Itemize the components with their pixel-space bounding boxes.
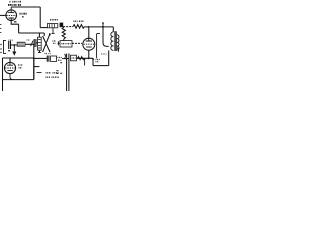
coupling box K1	[60, 41, 72, 47]
drop from rail at x53	[52, 28, 55, 34]
left bus	[2, 58, 4, 91]
capacitor C1	[9, 41, 11, 49]
wire V2 cathode down	[88, 50, 90, 58]
tube V3 cathode	[7, 70, 12, 72]
label above C3	[45, 53, 51, 55]
tube V3 envelope	[4, 62, 15, 73]
label above V1 row2	[8, 4, 21, 6]
node plate V2	[88, 26, 90, 28]
tube V1 plate	[8, 7, 14, 12]
tube V3 grid	[5, 67, 15, 69]
loop right bus bottom	[33, 58, 35, 80]
tube V1 grid	[6, 14, 16, 16]
capacitor C2	[34, 39, 36, 47]
cathode row wire	[34, 57, 47, 59]
OT hook from plate line	[103, 27, 109, 47]
tick mark left of bus	[60, 63, 62, 73]
label mid right	[101, 53, 107, 55]
resistor R3 box on rail	[47, 24, 57, 28]
wire K1 to V2 grid	[72, 42, 82, 44]
node C2 bus	[33, 43, 35, 45]
OT secondary bottom hook	[117, 48, 119, 52]
R8 inner label	[72, 57, 76, 59]
wire V1 plate top run	[11, 6, 40, 8]
plus mark left of K1	[57, 41, 59, 45]
tube V2 envelope	[83, 38, 95, 50]
OT core line 1	[114, 31, 116, 51]
wire to twin bus	[62, 58, 69, 60]
OT primary top corner	[112, 27, 114, 32]
tube V2 plate	[86, 38, 92, 41]
node at X top	[49, 34, 51, 36]
resistor R3 hatch	[50, 24, 55, 27]
tiny mark left of arrow	[8, 50, 10, 52]
label above R3	[50, 19, 58, 21]
label above V1 row1	[10, 1, 22, 3]
caption row2	[46, 76, 60, 78]
rail dashes to R4	[63, 26, 73, 28]
squiggle at bus top	[65, 54, 66, 58]
wire bend into splitter	[43, 33, 45, 36]
input terminal dots	[0, 45, 1, 53]
cathode row right wire	[77, 57, 94, 59]
stub x84 down	[84, 59, 86, 66]
tube V3 plate	[7, 62, 13, 65]
B+ rail left segment	[40, 27, 47, 29]
label near X output	[53, 41, 56, 43]
label mark under 6AX7	[22, 16, 24, 18]
capacitor C3	[47, 56, 49, 62]
OT core line 2	[115, 31, 117, 51]
bottom loop wire	[3, 79, 34, 81]
crossed wires X	[43, 35, 50, 52]
node cathode	[88, 57, 90, 59]
wire C2 to R2	[36, 42, 38, 44]
box K1 inner label	[62, 43, 71, 45]
junction block after R3	[60, 23, 64, 28]
resistor R6 box	[51, 56, 57, 61]
resistor R7 box	[58, 58, 63, 61]
node sec return	[92, 58, 94, 60]
label under V2	[96, 60, 101, 62]
wire R1 to C2	[25, 43, 34, 45]
tube V2 grid	[84, 43, 94, 45]
stub y66	[34, 66, 40, 68]
twin vertical bus R	[68, 54, 70, 92]
tick above tap	[102, 23, 104, 26]
resistor R1 box	[17, 42, 25, 46]
node at ground arrow	[13, 44, 15, 46]
R2 top lead	[38, 33, 40, 37]
wire C1 to grid node	[11, 44, 18, 46]
dots mid	[57, 71, 59, 74]
tube V1 envelope	[6, 10, 17, 21]
label above R4	[74, 20, 84, 22]
OT primary winding	[111, 32, 114, 50]
wire V3 top lead	[9, 58, 11, 62]
tube V2 cathode	[86, 46, 92, 48]
resistor R2 box vertical	[38, 37, 42, 50]
node OT tap	[102, 26, 104, 28]
resistor R1 hatch	[19, 43, 23, 47]
tube V1 cathode	[9, 18, 14, 21]
node x84	[84, 58, 86, 60]
resistor R8 box	[71, 55, 77, 61]
R5 lead to box	[63, 39, 65, 41]
resistor R2 hatch	[38, 40, 41, 49]
wire plate drop to B+ rail	[39, 7, 41, 28]
bottom-left loop top wire	[3, 57, 34, 59]
caption row1	[46, 72, 59, 74]
pot wiper slash	[31, 41, 34, 46]
R2 bottom stub	[38, 50, 41, 53]
bus from C2 node down	[33, 44, 35, 79]
twin vertical bus L	[66, 54, 68, 92]
wire V2 plate to rail	[88, 28, 90, 39]
label 1K above C1	[9, 39, 14, 41]
tiny label above wire	[27, 39, 31, 41]
node loop top	[33, 57, 35, 59]
label right of V1	[20, 13, 27, 15]
screen lead	[97, 34, 100, 59]
B+ rail right segment	[84, 26, 113, 28]
wire cathode bus down	[18, 24, 20, 33]
dash mark	[37, 72, 42, 74]
resistor R5 vertical zigzag	[62, 27, 65, 39]
wire y33 run	[19, 32, 45, 34]
input jack terminal	[4, 40, 7, 54]
wire V1 grid to left edge	[0, 14, 6, 16]
sec return riser	[92, 58, 94, 65]
OT secondary winding	[117, 35, 119, 50]
resistor R9 zigzag	[78, 57, 85, 60]
OT bottom lead	[108, 51, 110, 66]
ground arrow	[13, 45, 15, 52]
left edge ticks	[0, 25, 1, 33]
X top tick	[49, 33, 51, 35]
resistor R4 zigzag	[73, 25, 84, 29]
sec return run	[93, 65, 109, 67]
wire V1 cathode hook	[11, 21, 18, 25]
label right of V3	[18, 65, 23, 68]
wire V3 bottom hook	[10, 74, 13, 80]
